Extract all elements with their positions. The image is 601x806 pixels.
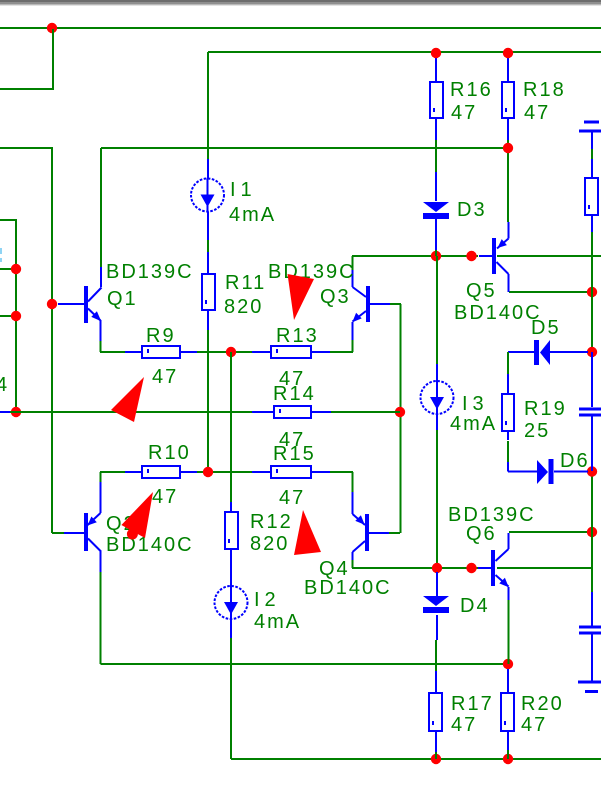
wire R16 top xyxy=(435,53,437,57)
cut label fragment left edge cyan xyxy=(0,248,2,254)
transistor Q6 BD139C xyxy=(491,550,495,586)
svg-text:4: 4 xyxy=(0,374,9,396)
svg-text:R19: R19 xyxy=(524,398,567,420)
diode D4 xyxy=(436,572,438,640)
wire I3 stems xyxy=(436,364,438,430)
transistor Q2 BD140C xyxy=(84,513,88,551)
red annotation arrow 4 xyxy=(294,510,321,555)
wire row y472 mid xyxy=(197,471,252,473)
wire cap stem xyxy=(591,132,593,149)
resistor R20 47 xyxy=(501,693,514,731)
wire bottom rail y759 xyxy=(231,758,601,760)
resistor R18 47 xyxy=(502,82,514,118)
wire x231 down xyxy=(230,352,232,502)
svg-text:D4: D4 xyxy=(460,595,490,617)
wire Q2 emitter down xyxy=(100,572,102,664)
junction x16 y316 xyxy=(11,311,21,321)
junction R16 top xyxy=(431,48,441,58)
svg-text:R17: R17 xyxy=(451,693,494,715)
svg-text:47: 47 xyxy=(279,487,305,509)
junction y292 x592 xyxy=(587,287,597,297)
svg-text:47: 47 xyxy=(152,486,178,508)
wire Q6 emitter lower xyxy=(508,600,510,664)
junction x208 y472 xyxy=(203,467,213,477)
junction y256 x472 xyxy=(466,251,476,261)
top window border bar xyxy=(0,0,601,2)
svg-text:47: 47 xyxy=(524,102,550,124)
wire left stub y316 xyxy=(0,315,16,317)
capacitor right middle xyxy=(591,352,593,407)
svg-text:47: 47 xyxy=(521,714,547,736)
svg-text:4mA: 4mA xyxy=(254,611,301,633)
junction y352 x592 xyxy=(587,347,597,357)
wire I2 bottom stem xyxy=(230,619,232,638)
svg-text:D5: D5 xyxy=(531,317,561,339)
svg-text:R14: R14 xyxy=(273,383,316,405)
resistor right column xyxy=(585,178,598,215)
junction x16 y269 xyxy=(11,264,21,274)
wire row y352 right corner xyxy=(330,340,353,352)
wire I1 feed from rail y52 xyxy=(207,52,209,159)
junction x16 y412 xyxy=(11,407,21,417)
resistor R16 47 xyxy=(430,82,443,118)
wire base line Q3-Q4 xyxy=(389,304,401,533)
wire left stub y148 xyxy=(0,148,52,533)
wire I1 to R11 xyxy=(207,240,209,252)
junction y568 x437 xyxy=(432,563,442,573)
svg-text:820: 820 xyxy=(250,533,289,555)
svg-text:D3: D3 xyxy=(457,199,487,221)
svg-text:R16: R16 xyxy=(450,79,493,101)
svg-text:R12: R12 xyxy=(250,511,293,533)
resistor R12 820 xyxy=(225,512,238,549)
wire left stub y89 xyxy=(0,29,53,89)
resistor R15 47 xyxy=(271,466,311,478)
ground bottom right xyxy=(578,681,601,684)
svg-text:47: 47 xyxy=(152,366,178,388)
wire left stub y220 xyxy=(0,220,16,412)
junction y256 x436 xyxy=(431,251,441,261)
wire row y352 mid xyxy=(197,351,252,353)
wire mid rail y148 xyxy=(101,147,508,149)
current source I1 4mA xyxy=(191,179,224,212)
resistor R13 47 xyxy=(271,346,311,358)
capacitor bottom right xyxy=(591,592,593,626)
current source I2 4mA xyxy=(215,586,248,619)
svg-text:I1: I1 xyxy=(230,179,257,201)
svg-text:I2: I2 xyxy=(254,589,281,611)
red annotation arrow 3 xyxy=(121,492,153,538)
svg-text:R9: R9 xyxy=(146,325,176,347)
svg-text:4mA: 4mA xyxy=(450,413,497,435)
svg-text:BD140C: BD140C xyxy=(304,577,392,599)
resistor R9 47 xyxy=(142,346,180,358)
wire row y472 left xyxy=(100,472,125,482)
wire Q2 base corner xyxy=(52,532,64,534)
red annotation arrow 1 xyxy=(288,274,315,320)
wire row y412 xyxy=(10,411,400,413)
wire second supply rail xyxy=(208,51,601,53)
wire D5 left corner xyxy=(507,352,509,374)
junction R18 top xyxy=(503,48,513,58)
svg-text:BD140C: BD140C xyxy=(106,534,194,556)
wire bottom rail y664 xyxy=(101,663,509,665)
resistor R19 25 xyxy=(502,394,514,431)
junction y148 x508 xyxy=(503,143,513,153)
svg-text:R13: R13 xyxy=(276,325,319,347)
svg-text:D6: D6 xyxy=(560,450,590,472)
svg-text:Q1: Q1 xyxy=(107,288,138,310)
red annotation arrow 2 xyxy=(111,377,144,422)
current source I3 4mA xyxy=(421,381,454,414)
capacitor top right xyxy=(584,121,599,124)
svg-text:R20: R20 xyxy=(521,693,564,715)
svg-text:R15: R15 xyxy=(273,443,316,465)
wire Q3 collector corner xyxy=(352,256,354,270)
wire I2 down to bottom rail xyxy=(230,638,232,759)
svg-text:Q5: Q5 xyxy=(466,280,497,302)
junction y664 x508 xyxy=(503,659,513,669)
wire D4-R17 link xyxy=(435,640,437,759)
resistor R10 47 xyxy=(142,466,180,478)
junction y568 x472 xyxy=(466,563,476,573)
junction y759 x508 xyxy=(503,754,513,764)
resistor R14 47 xyxy=(274,406,311,418)
diode D3 xyxy=(435,172,437,250)
svg-text:4mA: 4mA xyxy=(229,204,276,226)
wire D3 column xyxy=(435,140,437,256)
junction Q1 base xyxy=(47,299,57,309)
transistor Q4 BD140C xyxy=(365,514,369,551)
transistor Q1 BD139C xyxy=(84,286,88,323)
svg-text:R18: R18 xyxy=(523,79,566,101)
wire Q5 emitter column xyxy=(507,140,509,222)
wire row y352 left xyxy=(100,341,125,352)
wire R11 stems xyxy=(207,252,209,330)
wire Q6 collector line y532 xyxy=(509,531,592,533)
svg-text:BD139C: BD139C xyxy=(106,261,194,283)
svg-text:R11: R11 xyxy=(225,272,266,294)
wire base rail y568 xyxy=(352,567,592,569)
wire I1 stems xyxy=(207,159,209,240)
svg-text:Q3: Q3 xyxy=(320,286,351,308)
wire row y472 right corner xyxy=(330,472,353,492)
wire Q5 collector line y292 xyxy=(509,291,592,293)
wire Q4 collector corner xyxy=(352,560,354,568)
diode D6 xyxy=(508,471,588,473)
wire R20 bottom xyxy=(507,750,509,759)
svg-text:BD140C: BD140C xyxy=(454,302,542,324)
junction top rail x52 xyxy=(47,23,57,33)
svg-text:25: 25 xyxy=(524,420,550,442)
wire R11 down to node R10 xyxy=(207,330,209,472)
resistor R17 47 xyxy=(429,693,442,731)
wire right column x592 xyxy=(591,149,593,592)
svg-text:I3: I3 xyxy=(462,393,489,415)
diode D5 xyxy=(508,351,588,353)
wire left stub y269 xyxy=(0,268,16,270)
svg-text:47: 47 xyxy=(451,102,477,124)
junction y759 x436 xyxy=(431,754,441,764)
transistor Q5 BD140C xyxy=(492,238,496,274)
wire I3 column xyxy=(436,256,438,568)
junction R14 base line xyxy=(395,407,405,417)
resistor R11 820 xyxy=(202,274,215,310)
svg-text:Q6: Q6 xyxy=(466,523,497,545)
wire top supply rail xyxy=(0,27,601,29)
wire base rail y256 xyxy=(352,255,601,257)
junction x231 y352 xyxy=(226,347,236,357)
wire R19 to D6 xyxy=(507,441,509,462)
wire Q1 collector riser xyxy=(100,148,102,267)
transistor Q3 BD139C xyxy=(366,286,370,322)
svg-text:47: 47 xyxy=(451,714,477,736)
junction y532 x592 xyxy=(587,527,597,537)
svg-text:820: 820 xyxy=(224,296,263,318)
junction y471 x592 xyxy=(587,466,597,476)
svg-text:R10: R10 xyxy=(148,442,191,464)
